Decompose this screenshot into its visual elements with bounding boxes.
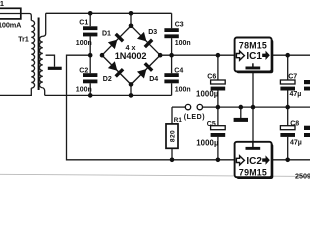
svg-text:(LED): (LED) [184,114,205,121]
svg-text:C2: C2 [79,68,88,75]
svg-text:C3: C3 [175,21,184,28]
svg-text:F1: F1 [0,0,4,8]
svg-text:Tr1: Tr1 [18,36,29,43]
svg-text:100n: 100n [175,86,191,93]
svg-text:IC2: IC2 [246,156,262,167]
svg-text:79M15: 79M15 [239,168,267,178]
svg-text:820: 820 [170,130,177,142]
svg-text:R1: R1 [174,117,183,124]
svg-text:D1: D1 [102,31,111,38]
svg-text:C5: C5 [207,121,216,128]
svg-text:C4: C4 [174,68,183,75]
svg-text:1000µ: 1000µ [196,138,219,147]
svg-text:D4: D4 [149,76,158,83]
svg-text:D3: D3 [148,29,157,36]
svg-text:100n: 100n [76,86,92,93]
svg-text:1N4002: 1N4002 [115,51,147,61]
svg-text:C8: C8 [290,121,299,128]
svg-text:78M15: 78M15 [239,41,267,51]
svg-text:100mA: 100mA [0,20,22,29]
svg-text:1000µ: 1000µ [196,90,219,99]
svg-text:C1: C1 [79,20,88,27]
svg-text:47µ: 47µ [290,91,302,98]
svg-text:100n: 100n [175,40,191,47]
svg-text:250984: 250984 [295,172,310,180]
svg-text:IC1: IC1 [246,51,262,62]
svg-text:47µ: 47µ [290,140,302,147]
svg-text:D2: D2 [103,76,112,83]
svg-text:C6: C6 [207,73,216,80]
svg-text:100n: 100n [76,40,92,47]
svg-text:C7: C7 [288,73,297,80]
